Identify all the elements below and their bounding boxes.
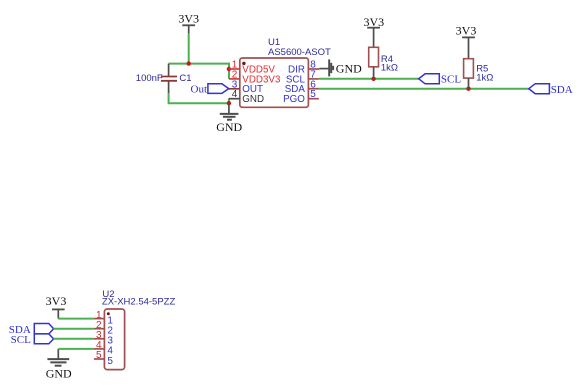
op-amp U1 body	[240, 58, 309, 107]
U1 pin 3 OUT	[229, 88, 240, 90]
U1 pin 5 PGO	[308, 98, 318, 100]
port SDA	[529, 84, 573, 97]
U1 pin-1 marker dot	[242, 62, 245, 65]
svg-text:GND: GND	[216, 120, 242, 134]
port SCL	[419, 73, 462, 85]
svg-text:1kΩ: 1kΩ	[476, 73, 493, 84]
junction at U1 pin 1	[227, 67, 231, 71]
svg-text:AS5600-ASOT: AS5600-ASOT	[268, 47, 331, 58]
svg-text:1kΩ: 1kΩ	[381, 63, 398, 74]
svg-text:5: 5	[96, 350, 102, 361]
svg-text:5: 5	[310, 89, 316, 100]
svg-text:3V3: 3V3	[178, 12, 199, 26]
svg-text:3V3: 3V3	[363, 15, 384, 29]
resistor R4	[369, 47, 379, 79]
U2 pin-1 marker dot	[107, 312, 110, 315]
junction at GND bus	[227, 101, 231, 105]
power flag 3V3 (above R5)	[456, 24, 477, 59]
port SCL (to U2 pin 3)	[11, 334, 54, 346]
svg-text:GND: GND	[46, 367, 72, 381]
resistor R5	[464, 59, 474, 89]
U1 pin 6 SDA	[308, 88, 318, 90]
ground GND (flag on U1 pin 8, rotated)	[319, 59, 362, 76]
wire SCL port to U2 pin 3	[54, 338, 94, 340]
U2 pin 2	[94, 328, 105, 330]
U2 pin 4	[94, 348, 105, 350]
ground GND (below U2 pin 4)	[46, 349, 72, 381]
U1 pin 7 SCL	[308, 78, 318, 80]
connector U2 body	[104, 309, 124, 370]
wire cap bottom to GND bus	[169, 93, 229, 103]
wire top bus to U1 pin 2	[169, 64, 229, 79]
U1 pin 2 VDD3V3	[229, 78, 240, 80]
svg-text:3V3: 3V3	[46, 294, 67, 308]
wire SCL net (U1 pin7 to SCL port)	[319, 78, 419, 80]
U1 pin 1 VDD5V	[229, 68, 240, 70]
svg-text:100nF: 100nF	[136, 73, 163, 84]
wire 3V3 to top bus	[188, 33, 190, 64]
power flag 3V3 (above R4)	[363, 15, 384, 48]
svg-text:SCL: SCL	[11, 334, 31, 346]
svg-text:ZX-XH2.54-5PZZ: ZX-XH2.54-5PZZ	[102, 297, 176, 308]
wire SDA port to U2 pin 2	[54, 328, 94, 330]
wire GND to U2 pin 4	[58, 348, 94, 350]
U1 pin 4 GND	[229, 98, 240, 100]
svg-text:SDA: SDA	[551, 84, 573, 96]
ground GND (below C1/U1)	[216, 103, 242, 134]
svg-text:5: 5	[107, 356, 113, 367]
svg-text:4: 4	[232, 89, 238, 100]
U1 pin 8 DIR	[308, 68, 319, 70]
U2 pin 5	[94, 358, 105, 360]
junction at R4/SCL	[371, 77, 375, 81]
wire 3V3 to U2 pin 1	[58, 318, 94, 320]
junction at R5/SDA	[466, 87, 470, 91]
capacitor C1	[161, 64, 177, 93]
wire SDA net (U1 pin6 to SDA port)	[319, 88, 529, 90]
port Out (output flag on U1 pin 3)	[191, 83, 229, 95]
junction at 3V3/top bus	[187, 61, 191, 65]
svg-text:SCL: SCL	[441, 73, 461, 85]
svg-text:GND: GND	[336, 61, 362, 75]
wire U1 pin 4 down	[228, 99, 230, 104]
svg-text:PGO: PGO	[283, 94, 305, 105]
svg-text:GND: GND	[242, 94, 264, 105]
port SDA (to U2 pin 2)	[9, 324, 54, 336]
power flag 3V3 (net 3V3 above C1/U1)	[178, 12, 199, 34]
svg-text:3V3: 3V3	[456, 24, 477, 38]
U2 pin 3	[94, 338, 105, 340]
power flag 3V3 (above U2 pin 1)	[46, 294, 67, 319]
svg-text:Out: Out	[191, 83, 208, 95]
U2 pin 1	[94, 318, 105, 320]
